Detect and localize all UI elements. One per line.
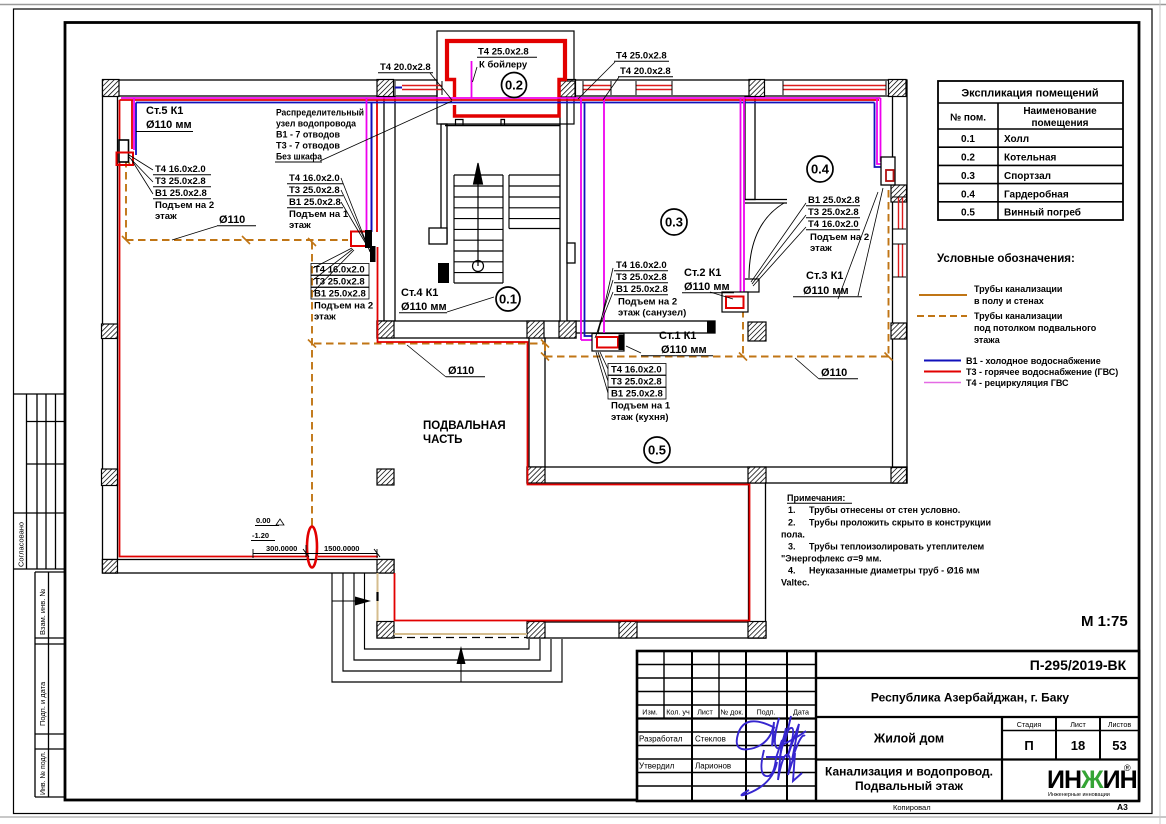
room circle 0.1 [496, 287, 520, 311]
B1 drop hall riser [371, 103, 373, 233]
svg-text:Подъем на 1: Подъем на 1 [289, 209, 349, 220]
WALLS [103, 31, 908, 640]
svg-text:Копировал: Копировал [893, 803, 931, 812]
svg-text:Ст.3 К1: Ст.3 К1 [806, 270, 843, 282]
svg-text:А3: А3 [1117, 802, 1128, 812]
svg-text:Неуказанные диаметры труб - Ø1: Неуказанные диаметры труб - Ø16 мм [809, 566, 980, 576]
NOTES [781, 493, 991, 588]
pier mid-bottom wall mid [748, 467, 766, 483]
leader St.2 K1 [710, 292, 733, 299]
ORANGE sewer dashed pipes [126, 160, 889, 527]
svg-text:П: П [1024, 738, 1033, 753]
leaders mid-lower stack [313, 248, 354, 292]
svg-text:узел водопровода: узел водопровода [276, 119, 357, 130]
RED T3 pipes [120, 100, 880, 621]
window W-A [402, 86, 442, 90]
T3 loop around basement [378, 247, 750, 621]
leaders mid-upper stack [341, 178, 372, 254]
T4 drop 0.4 riser [877, 98, 888, 164]
RED WINDOWS in walls [402, 86, 903, 278]
pier mid-bottom wall left [527, 467, 545, 483]
svg-text:1500.0000: 1500.0000 [324, 544, 359, 553]
svg-text:Ø110 мм: Ø110 мм [661, 344, 707, 356]
svg-text:0.3: 0.3 [665, 215, 683, 230]
dimension block at exit [251, 516, 380, 558]
svg-text:Подъем на 1: Подъем на 1 [611, 401, 671, 412]
pier room03 bottom wall right [748, 322, 766, 341]
svg-text:В1 - холодное водоснабжение: В1 - холодное водоснабжение [966, 356, 1101, 366]
EXPLICATION TABLE [938, 81, 1123, 220]
svg-text:этаж (санузел): этаж (санузел) [618, 308, 686, 319]
stage headers [1017, 720, 1132, 729]
svg-text:этаж (кухня): этаж (кухня) [611, 412, 668, 423]
DRAWING TEXT LABELS [136, 47, 869, 447]
sewer jog [544, 344, 546, 357]
svg-text:Т3 25.0х2.8: Т3 25.0х2.8 [611, 377, 662, 388]
pier left wall mid1 [102, 324, 118, 339]
svg-text:Взам. инв. №: Взам. инв. № [38, 589, 47, 635]
svg-text:пола.: пола. [781, 530, 805, 540]
svg-text:П-295/2019-ВК: П-295/2019-ВК [1030, 657, 1127, 673]
B1 drop St.1 [585, 103, 597, 337]
T3 stub St.5 [131, 100, 133, 149]
T4 boiler branch [471, 61, 473, 98]
right part lines [816, 677, 1139, 679]
svg-text:Т3 25.0х2.8: Т3 25.0х2.8 [808, 207, 859, 218]
svg-text:Холл: Холл [1004, 134, 1029, 145]
door arc room 0.4 [749, 203, 784, 278]
svg-text:М 1:75: М 1:75 [1081, 613, 1128, 630]
svg-text:1.: 1. [788, 505, 796, 515]
leader raspred uzel [320, 101, 452, 161]
stair step U2 [343, 573, 551, 671]
svg-text:№ пом.: № пом. [950, 113, 986, 124]
svg-text:Подп.: Подп. [756, 708, 775, 717]
sewer horizontal mid [314, 343, 545, 345]
legend solid sewer line [919, 294, 967, 296]
dashed hidden wall line [394, 637, 527, 639]
svg-text:Согласовано: Согласовано [17, 522, 26, 567]
svg-text:Т4 16.0х2.0: Т4 16.0х2.0 [289, 173, 340, 184]
svg-text:53: 53 [1112, 738, 1126, 753]
legend T4 line [924, 382, 961, 384]
svg-text:Стадия: Стадия [1017, 720, 1042, 729]
boiler room black outline [437, 31, 574, 124]
svg-text:этаж: этаж [155, 211, 177, 222]
ENTRANCE STAIR [332, 573, 562, 682]
svg-text:-1.20: -1.20 [252, 531, 269, 540]
pier hall bottom wall left [377, 321, 394, 338]
tan hidden sewer vertical at stair [377, 573, 379, 621]
leaders St.3 K1 [838, 188, 883, 299]
ROOM CIRCLES [496, 73, 833, 464]
svg-text:Канализация и водопровод.: Канализация и водопровод. [825, 765, 993, 779]
T4 drop St.5 [133, 98, 135, 150]
svg-text:Ларионов: Ларионов [695, 762, 731, 771]
svg-text:Подп. и дата: Подп. и дата [38, 681, 47, 726]
T3 main horizontal [120, 99, 880, 101]
stair start circle [473, 261, 484, 272]
tan hidden edge at entrance opening [394, 633, 527, 635]
sewer junction ticks [122, 156, 893, 361]
svg-text:0.2: 0.2 [505, 78, 523, 93]
fixture St.5 K1 [117, 140, 134, 165]
T4 St.2 return [743, 98, 745, 294]
B1 drop 0.4 riser [875, 103, 889, 168]
entrance arrow up [457, 646, 466, 682]
left grid horizontals [637, 664, 816, 666]
svg-text:Ст.2 К1: Ст.2 К1 [684, 267, 721, 279]
window W-B [583, 86, 611, 90]
wall hall-left vertical [384, 97, 395, 325]
window mullions [395, 81, 906, 277]
fixture St.1 K1 [592, 334, 625, 352]
svg-text:ЧАСТЬ: ЧАСТЬ [423, 434, 462, 446]
sewer horizontal upper-left [126, 239, 348, 241]
svg-text:этаж: этаж [810, 243, 832, 254]
T4 main horizontal [121, 97, 881, 99]
svg-text:Т4 - рециркуляция ГВС: Т4 - рециркуляция ГВС [966, 378, 1069, 388]
svg-text:Котельная: Котельная [1004, 153, 1057, 164]
fixture St.2 K1 [722, 292, 748, 312]
pier top wall right corner [889, 80, 907, 97]
room circle 0.3 [661, 209, 687, 235]
svg-text:Ст.5 К1: Ст.5 К1 [146, 105, 183, 117]
svg-text:2.: 2. [788, 518, 796, 528]
leader St.1 K1 [626, 346, 641, 353]
svg-text:Разработал: Разработал [639, 735, 683, 744]
svg-text:К бойлеру: К бойлеру [479, 60, 528, 71]
pier hall bottom wall right [559, 321, 576, 338]
svg-text:0.4: 0.4 [961, 190, 975, 201]
svg-text:В1 - 7 отводов: В1 - 7 отводов [276, 130, 340, 141]
leaders St.5 stack [129, 155, 153, 194]
window W-C [636, 86, 672, 90]
svg-text:ПОДВАЛЬНАЯ: ПОДВАЛЬНАЯ [423, 420, 506, 432]
main divider [815, 651, 817, 801]
window right wall W-F [899, 244, 903, 277]
T4 drop St.2 supply [740, 98, 742, 296]
svg-text:Подъем на 2: Подъем на 2 [155, 200, 214, 211]
svg-text:0.5: 0.5 [648, 443, 666, 458]
landing notch left [456, 120, 464, 126]
svg-text:Трубы теплоизолировать утеплит: Трубы теплоизолировать утеплителем [809, 542, 985, 552]
svg-text:В1 25.0х2.8: В1 25.0х2.8 [808, 195, 860, 206]
pier top wall 2 [377, 80, 394, 97]
svg-text:Жилой дом: Жилой дом [873, 732, 944, 746]
room circle 0.5 [644, 437, 670, 463]
svg-text:Т4 16.0х2.0: Т4 16.0х2.0 [616, 260, 667, 271]
leader T4 boiler [473, 67, 478, 82]
svg-text:Инженерные инновации: Инженерные инновации [1048, 792, 1110, 798]
pier left wall bottom corner [103, 560, 118, 574]
wall lower-bottom band [377, 622, 766, 638]
sewer riser St.2 [742, 310, 744, 357]
svg-text:этаж: этаж [314, 312, 336, 323]
pier lower-bottom wall 4 [748, 622, 766, 639]
svg-text:Ø110: Ø110 [448, 365, 474, 377]
svg-text:Valtec.: Valtec. [781, 578, 810, 588]
T3 drop to hall riser [376, 100, 378, 232]
svg-text:Республика Азербайджан, г. Бак: Республика Азербайджан, г. Баку [871, 691, 1070, 705]
T4 drop hall riser [366, 98, 368, 232]
wall hall-right vertical [560, 97, 567, 339]
svg-text:Ø110 мм: Ø110 мм [146, 119, 192, 131]
wall top-right band [574, 80, 905, 96]
svg-text:Ø110: Ø110 [219, 214, 245, 226]
svg-text:Лист: Лист [697, 708, 713, 717]
svg-text:Подъем на 2: Подъем на 2 [618, 297, 677, 308]
pier hall bottom wall mid [527, 321, 544, 338]
svg-text:Изм.: Изм. [642, 708, 657, 717]
svg-text:"Энергофлекс σ=9 мм.: "Энергофлекс σ=9 мм. [781, 554, 882, 564]
pier bottom-left wall right end [377, 560, 394, 574]
svg-text:Ст.4 К1: Ст.4 К1 [401, 287, 438, 299]
svg-text:Утвердил: Утвердил [639, 762, 675, 771]
pier right wall mid1 [891, 185, 907, 202]
svg-text:В1 25.0х2.8: В1 25.0х2.8 [314, 289, 366, 300]
svg-text:Ø110 мм: Ø110 мм [803, 285, 849, 297]
svg-text:Распределительный: Распределительный [276, 108, 364, 119]
blue line at window left [395, 87, 402, 89]
svg-text:Т3 - горячее водоснабжение (ГВ: Т3 - горячее водоснабжение (ГВС) [966, 367, 1118, 377]
room circle 0.2 [502, 73, 527, 98]
svg-text:под потолком подвального: под потолком подвального [974, 323, 1097, 333]
signature scribble [737, 716, 806, 795]
svg-text:0.4: 0.4 [811, 162, 830, 177]
svg-text:Т4 16.0х2.0: Т4 16.0х2.0 [611, 365, 662, 376]
stack labels mid-lower boxed [311, 264, 369, 300]
svg-text:4.: 4. [788, 566, 796, 576]
svg-text:Ø110: Ø110 [821, 367, 847, 379]
pier right wall mid2 [891, 323, 907, 339]
window W-D [783, 86, 886, 90]
leaders 0.4 stack [751, 203, 806, 286]
svg-text:Трубы отнесены от стен условно: Трубы отнесены от стен условно. [809, 505, 960, 515]
svg-text:Ø110 мм: Ø110 мм [401, 301, 447, 313]
wall room03-bottom band [576, 321, 715, 333]
svg-text:В1 25.0х2.8: В1 25.0х2.8 [155, 188, 207, 199]
svg-text:этажа: этажа [974, 335, 1001, 345]
leader D110 no2 [407, 345, 446, 377]
stair step U1 [332, 573, 562, 682]
logo INGIN [1047, 763, 1137, 798]
svg-text:Т3 25.0х2.8: Т3 25.0х2.8 [289, 185, 340, 196]
LEADER LINES [129, 62, 883, 393]
svg-text:Т4 16.0х2.0: Т4 16.0х2.0 [314, 265, 365, 276]
MAGENTA T4 pipes [121, 61, 888, 336]
svg-text:Подъем на 2: Подъем на 2 [314, 301, 373, 312]
fixture hall riser (podem na 1) [351, 230, 376, 262]
standalone column basement [377, 469, 394, 485]
svg-text:Гардеробная: Гардеробная [1004, 189, 1069, 201]
pier top wall 4 [749, 80, 765, 97]
svg-text:0.1: 0.1 [961, 134, 975, 145]
boiler landing line [445, 125, 560, 127]
B1 drop St.5 [135, 103, 137, 156]
pier lower-bottom wall 2 [527, 622, 545, 639]
svg-text:0.3: 0.3 [961, 171, 975, 182]
svg-text:0.5: 0.5 [961, 208, 975, 219]
opening in lower-bottom wall [395, 621, 527, 640]
svg-text:Примечания:: Примечания: [787, 493, 845, 503]
legend B1 line [924, 360, 961, 362]
svg-text:помещения: помещения [1032, 118, 1089, 129]
svg-text:В1 25.0х2.8: В1 25.0х2.8 [616, 284, 668, 295]
pilaster on hall-right wall [567, 243, 575, 263]
dimension line [253, 553, 377, 555]
stair step U3 [354, 573, 540, 660]
leader D110 no3 [795, 358, 819, 379]
pier top wall 1 [103, 80, 120, 97]
svg-text:в полу и стенах: в полу и стенах [974, 296, 1044, 306]
right flight steps [509, 175, 560, 229]
svg-text:№ док.: № док. [720, 708, 743, 717]
stairwell wall notch [429, 228, 447, 244]
wall hall-bottom band [377, 321, 576, 338]
svg-text:Т3 25.0х2.8: Т3 25.0х2.8 [155, 176, 206, 187]
svg-text:Т3 25.0х2.8: Т3 25.0х2.8 [616, 272, 667, 283]
wall right exterior [893, 80, 908, 483]
svg-text:Трубы канализации: Трубы канализации [974, 311, 1062, 321]
svg-text:Трубы проложить скрыто в конст: Трубы проложить скрыто в конструкции [809, 518, 991, 528]
T4 St.1 return riser [603, 98, 605, 336]
svg-text:Винный погреб: Винный погреб [1004, 207, 1081, 219]
T4 drop St.1 [580, 98, 582, 340]
wall mid-bottom band (under rooms 0.3/0.4/0.5) [527, 467, 907, 483]
B1 main horizontal [136, 102, 875, 104]
boiler room red outline [445, 41, 567, 116]
svg-text:Т4 25.0х2.8: Т4 25.0х2.8 [616, 51, 667, 62]
sewer riser St.3 [888, 178, 890, 357]
sewer vertical to exit oval [311, 242, 313, 527]
svg-text:Условные обозначения:: Условные обозначения: [937, 253, 1075, 265]
sewer exit oval [307, 527, 317, 568]
svg-text:Т4 20.0х2.8: Т4 20.0х2.8 [620, 66, 671, 77]
T3 left wall drop [120, 100, 307, 557]
legend T3 line [924, 371, 961, 373]
svg-text:Инв. № подл.: Инв. № подл. [40, 751, 47, 795]
sewer horizontal right [545, 356, 889, 358]
svg-text:18: 18 [1071, 738, 1085, 753]
legend dashed sewer line [917, 315, 967, 317]
leaders T4 25 / T4 20 right [578, 62, 615, 99]
stairwell wall end block [438, 263, 449, 283]
leader T4 20.0x2.8 left [430, 73, 452, 100]
svg-text:3.: 3. [788, 542, 796, 552]
wall top-left band [103, 80, 437, 96]
svg-text:Т4 20.0х2.8: Т4 20.0х2.8 [380, 62, 431, 73]
svg-text:Т4 16.0х2.0: Т4 16.0х2.0 [155, 164, 206, 175]
wall lower-right vertical [749, 483, 766, 638]
TITLE BLOCK [637, 651, 1139, 812]
sewer drop from St.5 [125, 160, 127, 240]
svg-text:Листов: Листов [1108, 720, 1132, 729]
svg-text:Наименование: Наименование [1023, 106, 1097, 117]
leaders St.1 lower stack [596, 352, 608, 393]
svg-text:0.2: 0.2 [961, 153, 975, 164]
LEGEND [917, 253, 1118, 388]
svg-text:0.1: 0.1 [499, 292, 517, 307]
svg-text:В1 25.0х2.8: В1 25.0х2.8 [289, 197, 341, 208]
wall left exterior [103, 80, 118, 573]
landing notch right [501, 120, 505, 126]
svg-text:Дата: Дата [793, 708, 809, 717]
svg-text:Без шкафа: Без шкафа [276, 152, 323, 163]
svg-text:0.00: 0.00 [256, 516, 271, 525]
pier lower-bottom wall 3 [619, 622, 637, 639]
svg-text:Т3 - 7 отводов: Т3 - 7 отводов [276, 141, 340, 152]
svg-text:Подвальный этаж: Подвальный этаж [855, 779, 964, 793]
door lip room 0.4 [745, 199, 787, 201]
stair direction line [477, 180, 479, 266]
stair step U4 [365, 573, 530, 649]
T3 bottom-left continue [318, 556, 378, 558]
title block small labels [642, 708, 809, 717]
svg-text:Ø110 мм: Ø110 мм [684, 281, 730, 293]
STAIRWELL [454, 163, 560, 283]
left flight steps [454, 175, 503, 283]
stairwell inner-left wall [441, 124, 447, 243]
leader St.4 K1 [447, 297, 494, 312]
PIERS (hatched) [102, 80, 907, 639]
left margin stamp table (Согласовано) [14, 394, 66, 569]
stair arrow head [474, 163, 483, 184]
pier right wall bottom corner [891, 468, 907, 484]
svg-text:Спортзал: Спортзал [1004, 171, 1051, 182]
svg-text:®: ® [1124, 763, 1131, 773]
svg-text:Т3 25.0х2.8: Т3 25.0х2.8 [314, 277, 365, 288]
pier left wall mid2 [102, 469, 118, 486]
svg-text:Лист: Лист [1070, 720, 1086, 729]
svg-text:Подъем на 2: Подъем на 2 [810, 232, 869, 243]
svg-text:Т4 25.0х2.8: Т4 25.0х2.8 [478, 47, 529, 58]
pier lower-bottom wall 1 [377, 622, 394, 639]
wall bottom-left band [103, 560, 395, 574]
wall between hall and room 0.5 [529, 338, 545, 467]
BLUE B1 pipes [136, 98, 888, 340]
left grid verticals [663, 651, 665, 719]
stack labels St.1 lower boxed [608, 364, 666, 400]
pier boiler inner right [560, 81, 575, 97]
svg-text:Трубы канализации: Трубы канализации [974, 284, 1062, 294]
svg-text:Экспликация помещений: Экспликация помещений [961, 88, 1098, 100]
left margin table: Взам. инв. № [35, 572, 65, 797]
entrance arrow right [332, 597, 371, 606]
svg-text:Стеклов: Стеклов [695, 735, 726, 744]
svg-text:В1 25.0х2.8: В1 25.0х2.8 [611, 389, 663, 400]
svg-text:этаж: этаж [289, 220, 311, 231]
svg-text:300.0000: 300.0000 [266, 544, 297, 553]
svg-text:Кол. уч: Кол. уч [666, 708, 690, 717]
leader D110 no1 [172, 226, 217, 240]
wall divider rooms 0.3/0.4 [745, 97, 755, 200]
leaders St.1 upper stack [595, 268, 613, 338]
room circle 0.4 [807, 156, 833, 182]
pier top wall 3 [560, 80, 576, 97]
svg-text:Т4 16.0х2.0: Т4 16.0х2.0 [808, 219, 859, 230]
window right wall W-E [899, 197, 903, 229]
fixture St.3 / 0.4 riser [881, 157, 895, 185]
svg-text:Ст.1 К1: Ст.1 К1 [659, 330, 696, 342]
door jamb block [744, 279, 759, 292]
